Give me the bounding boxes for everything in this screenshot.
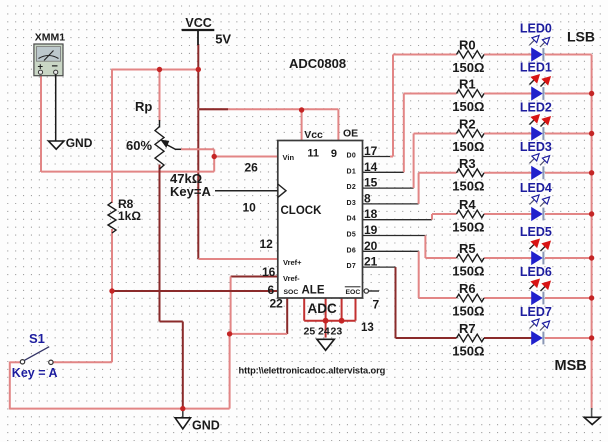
svg-text:ADC: ADC [308,301,337,316]
svg-text:150Ω: 150Ω [452,304,484,319]
svg-text:26: 26 [245,161,259,175]
svg-text:R0: R0 [459,38,476,53]
svg-text:12: 12 [260,237,274,251]
svg-text:13: 13 [361,322,374,334]
svg-text:Vref-: Vref- [283,274,300,283]
svg-text:24: 24 [318,326,330,338]
svg-text:LED4: LED4 [520,181,552,195]
svg-text:SOC: SOC [284,289,299,296]
svg-text:http:\\elettronicadoc.altervis: http:\\elettronicadoc.altervista.org [239,366,386,376]
svg-text:D1: D1 [347,168,357,175]
svg-text:GND: GND [66,136,93,150]
svg-text:OE: OE [343,128,358,140]
svg-text:Key=A: Key=A [170,184,211,199]
svg-text:D4: D4 [347,216,357,223]
svg-text:R3: R3 [459,156,476,171]
svg-text:19: 19 [364,223,378,237]
svg-text:18: 18 [364,207,378,221]
svg-text:LED6: LED6 [520,265,552,279]
svg-text:150Ω: 150Ω [452,344,484,359]
svg-text:D0: D0 [347,153,357,160]
svg-text:8: 8 [364,191,371,205]
svg-text:17: 17 [364,144,378,158]
svg-text:MSB: MSB [555,358,587,374]
svg-text:25: 25 [304,326,316,338]
svg-text:1kΩ: 1kΩ [118,209,141,223]
svg-text:150Ω: 150Ω [452,220,484,235]
svg-text:LED3: LED3 [520,140,552,154]
svg-text:D7: D7 [347,263,357,270]
svg-text:R1: R1 [459,77,476,92]
svg-text:5V: 5V [215,32,231,47]
svg-text:Rp: Rp [135,99,152,114]
svg-text:Key = A: Key = A [12,366,58,380]
svg-text:GND: GND [192,419,220,433]
svg-text:LED1: LED1 [520,61,552,75]
svg-text:VCC: VCC [185,16,211,30]
svg-text:Vref+: Vref+ [283,258,302,267]
svg-text:14: 14 [364,160,378,174]
svg-text:LED0: LED0 [520,22,552,36]
svg-text:R7: R7 [459,321,476,336]
svg-text:150Ω: 150Ω [452,178,484,193]
svg-text:D2: D2 [347,184,357,191]
svg-text:XMM1: XMM1 [35,32,65,44]
svg-text:LED5: LED5 [520,225,552,239]
svg-text:S1: S1 [29,331,45,346]
svg-text:9: 9 [331,148,337,160]
svg-text:16: 16 [262,265,276,279]
svg-text:ADC0808: ADC0808 [289,56,346,71]
svg-text:20: 20 [364,239,378,253]
svg-text:21: 21 [364,255,378,269]
svg-text:Vcc: Vcc [304,129,323,141]
svg-text:6: 6 [268,283,275,297]
svg-text:LED2: LED2 [520,101,552,115]
svg-text:60%: 60% [126,138,152,153]
svg-text:R5: R5 [459,241,476,256]
svg-text:150Ω: 150Ω [452,264,484,279]
svg-text:15: 15 [364,176,378,190]
svg-text:ALE: ALE [302,285,325,297]
svg-text:150Ω: 150Ω [452,60,484,75]
svg-text:150Ω: 150Ω [452,99,484,114]
svg-text:R6: R6 [459,281,476,296]
svg-text:LSB: LSB [567,29,595,45]
svg-text:Vin: Vin [283,153,295,162]
svg-text:D3: D3 [347,200,357,207]
svg-text:LED7: LED7 [520,305,552,319]
svg-text:11: 11 [307,148,319,160]
svg-text:150Ω: 150Ω [452,139,484,154]
svg-text:7: 7 [373,298,380,312]
svg-text:D5: D5 [347,232,357,239]
svg-text:23: 23 [331,326,343,338]
svg-text:R2: R2 [459,117,476,132]
svg-text:D6: D6 [347,247,357,254]
svg-text:10: 10 [243,201,257,215]
svg-text:22: 22 [270,297,284,311]
svg-text:CLOCK: CLOCK [281,205,323,217]
svg-text:EOC: EOC [346,289,361,296]
svg-text:R4: R4 [459,197,476,212]
